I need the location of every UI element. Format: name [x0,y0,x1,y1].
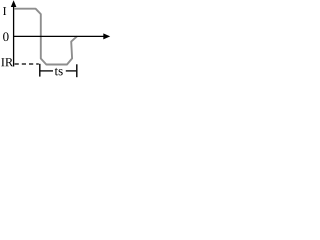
label ts [55,68,58,75]
x-axis arrowhead [103,33,110,39]
label I [3,7,6,15]
dimension left tick [39,64,41,77]
y-axis line [13,5,15,67]
dashed IR level line [15,63,39,65]
x-axis line [13,35,104,37]
dimension line right segment [66,70,76,72]
dimension right tick [76,64,78,77]
waveform current curve [15,9,77,65]
label IR [1,58,4,66]
y-axis arrowhead [11,0,17,7]
dimension line left segment [40,70,53,72]
label 0 [3,32,9,41]
